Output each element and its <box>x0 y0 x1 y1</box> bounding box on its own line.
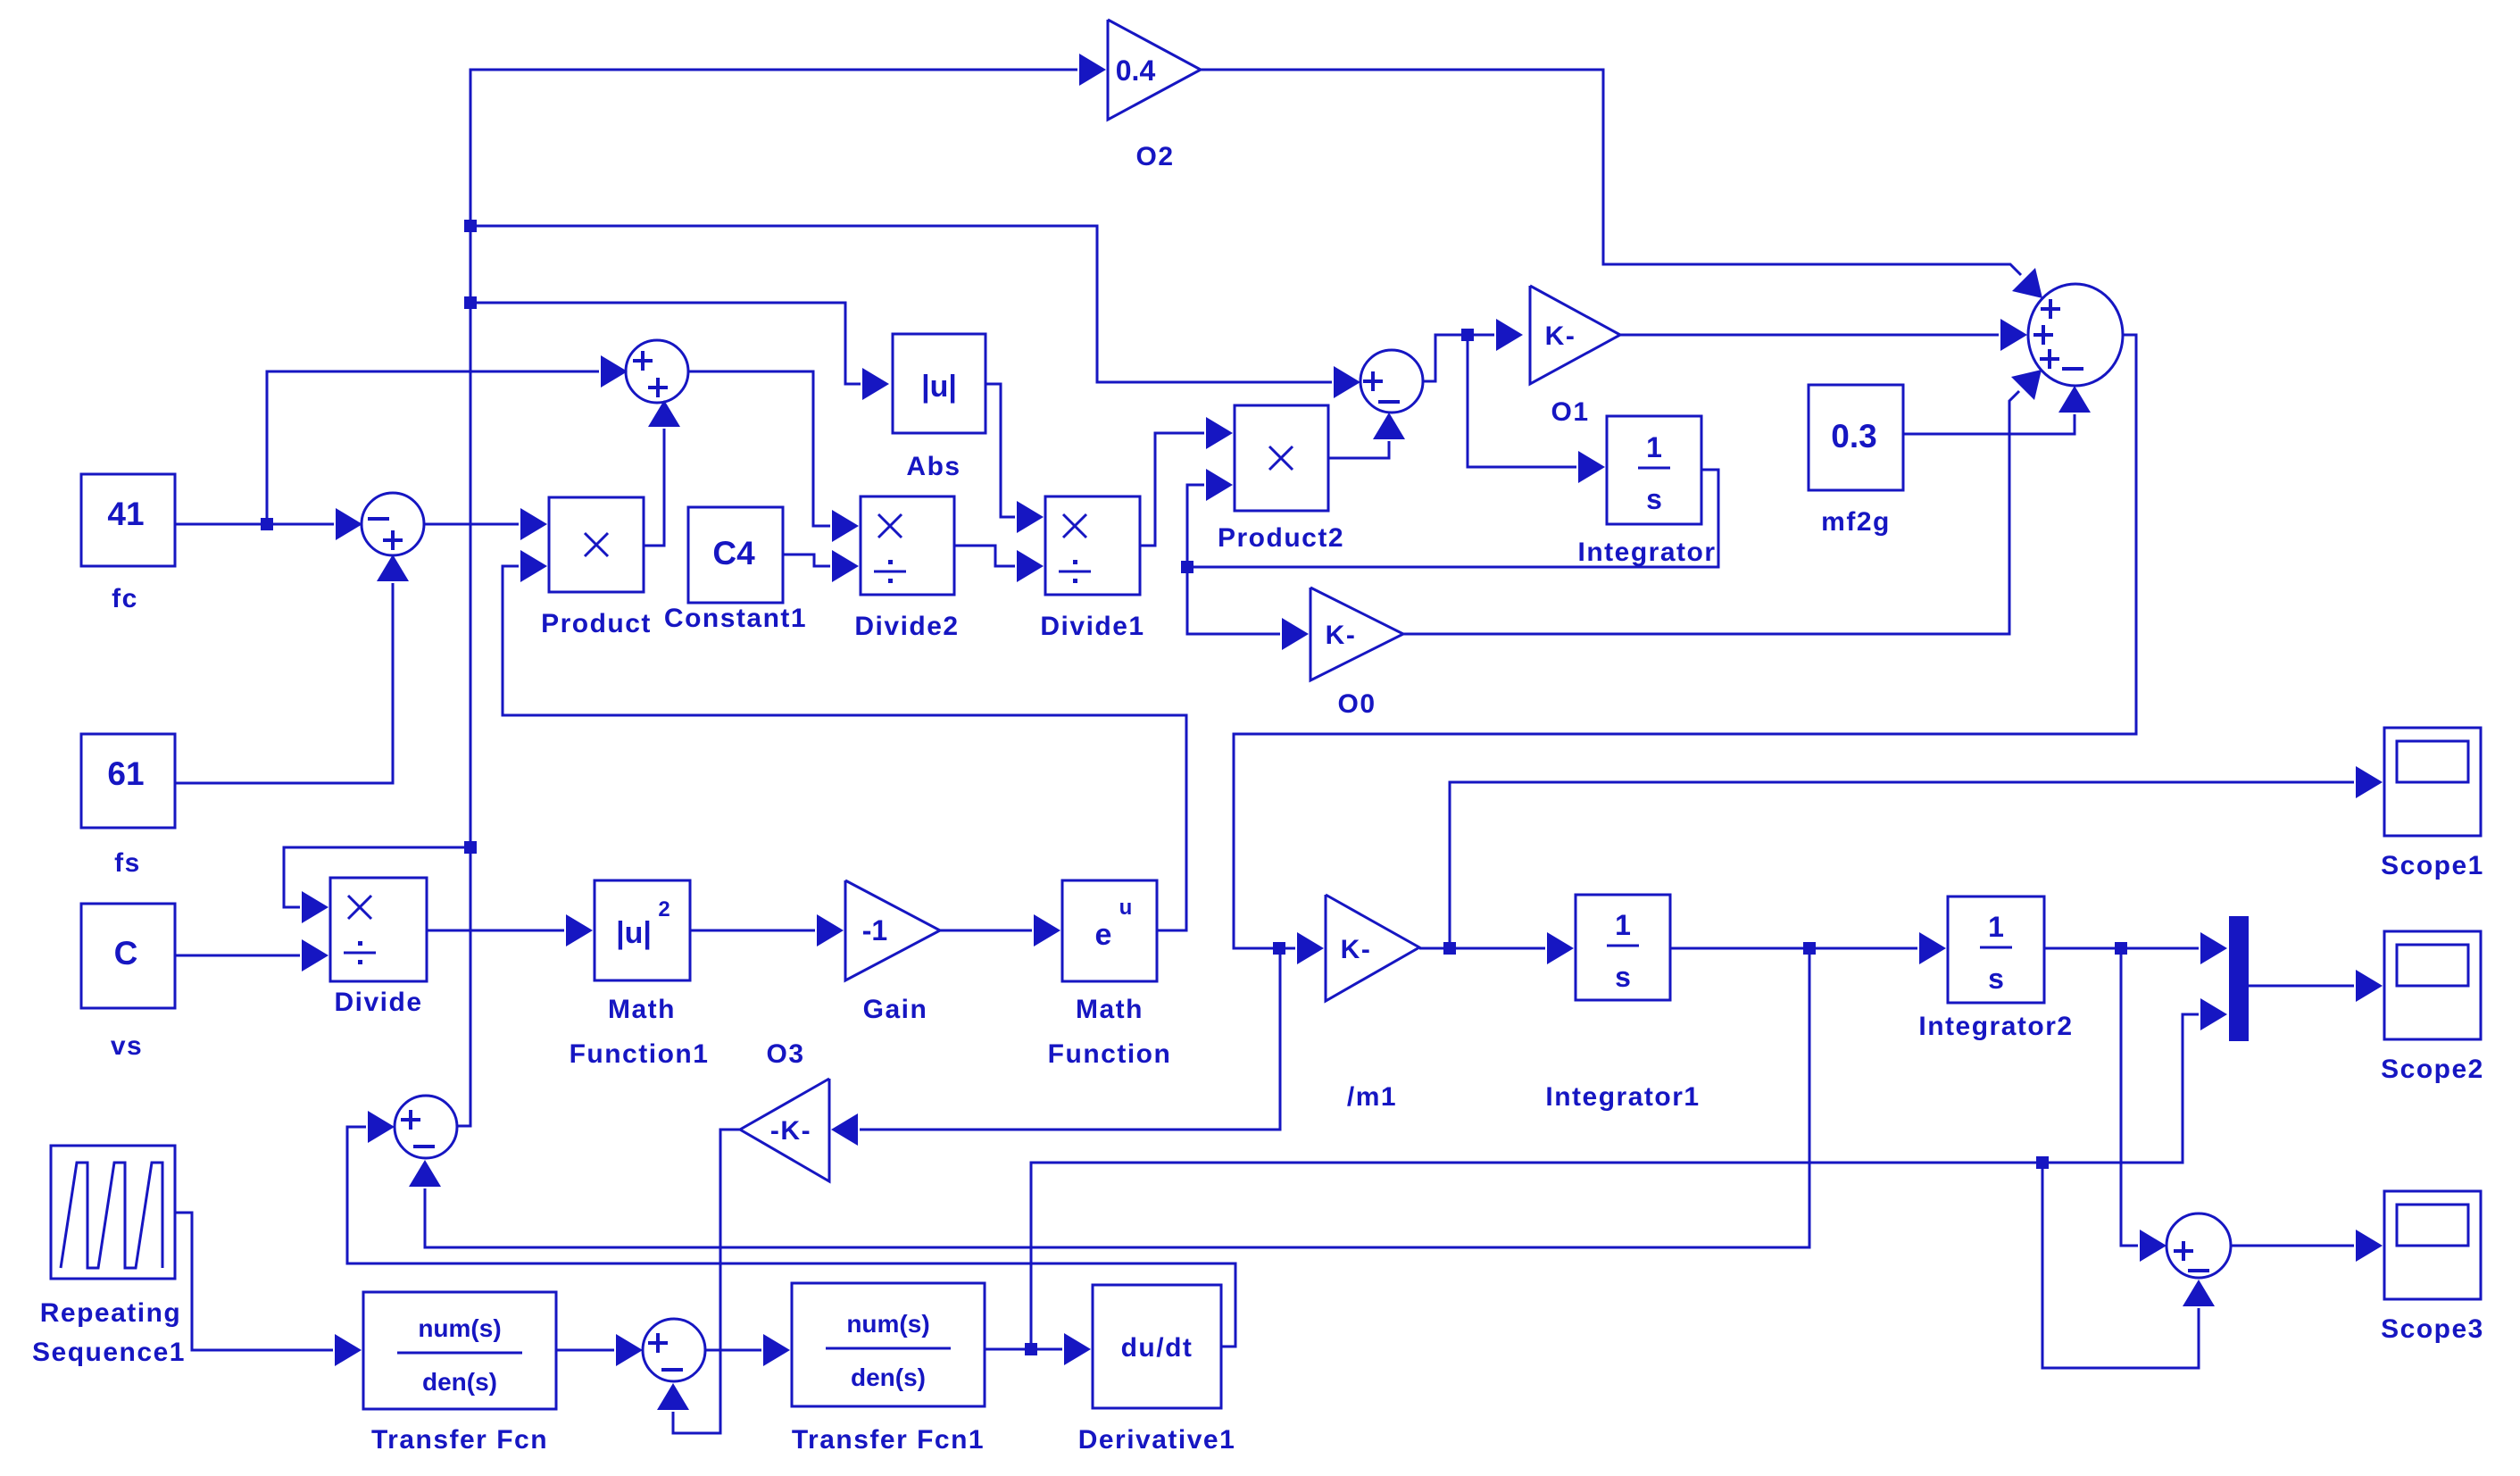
svg-text:Integrator: Integrator <box>1577 538 1716 567</box>
svg-text:vs: vs <box>111 1031 143 1061</box>
wire Sum4 up the left spine to O2 <box>458 70 1077 1126</box>
constant block vs (C) <box>81 904 175 1008</box>
wire O3 out to Sum5 bottom <box>673 1130 740 1433</box>
svg-text:2: 2 <box>658 897 670 921</box>
wire Product out to Sum2 bottom <box>644 429 664 546</box>
svg-text:fc: fc <box>112 584 138 613</box>
svg-text:Product: Product <box>541 609 652 638</box>
wire vs to Divide in2 <box>175 955 300 957</box>
svg-text:/m1: /m1 <box>1347 1082 1397 1112</box>
junction Sum3 out branch <box>1461 329 1474 341</box>
svg-text:num(s): num(s) <box>418 1314 501 1342</box>
svg-text:Derivative1: Derivative1 <box>1078 1425 1236 1455</box>
wire fc to Sum1 <box>175 523 334 526</box>
mux block Mux <box>2229 916 2249 1041</box>
wire Mux out to Scope2 <box>2249 985 2354 988</box>
wire Gain to Math Function <box>940 930 1032 932</box>
svg-text:|u|: |u| <box>921 370 957 404</box>
svg-text:|u|: |u| <box>616 916 652 950</box>
constant block mf2g (0.3) <box>1809 385 1903 490</box>
wire spine to Sum3 left <box>470 226 1332 382</box>
svg-text:fs: fs <box>114 848 141 878</box>
abs block Abs (|u|) <box>893 334 986 433</box>
svg-text:41: 41 <box>107 496 144 532</box>
gain block O2 (0.4) <box>1108 20 1201 120</box>
svg-text:du/dt: du/dt <box>1121 1333 1193 1363</box>
svg-text:Math: Math <box>608 995 676 1024</box>
scope block Scope1 <box>2384 728 2481 836</box>
junction Transfer Fcn1 out branch <box>1025 1343 1037 1355</box>
wire /m1 out to Integrator1 <box>1419 947 1545 950</box>
svg-text:Transfer Fcn1: Transfer Fcn1 <box>792 1425 985 1455</box>
math block Math Function (e^u) <box>1062 880 1157 981</box>
svg-text:Integrator1: Integrator1 <box>1545 1082 1700 1112</box>
svg-text:Scope1: Scope1 <box>2381 851 2484 880</box>
wire Transfer Fcn to Sum5 <box>556 1349 614 1352</box>
svg-text:Scope3: Scope3 <box>2381 1314 2484 1344</box>
integrator block Integrator (1/s) <box>1607 416 1701 524</box>
wire Sum2 to Divide2 in1 <box>687 371 830 526</box>
svg-text:s: s <box>1615 961 1631 993</box>
svg-text:61: 61 <box>107 755 144 792</box>
sum block Sum5 (+-) <box>643 1319 705 1381</box>
product block Product2 <box>1235 405 1328 511</box>
wire Divide2 to Divide1 in2 <box>954 546 1015 566</box>
divide block Divide <box>330 878 427 981</box>
sum block Sum4 (+-) <box>395 1096 457 1158</box>
svg-text:O0: O0 <box>1337 689 1376 719</box>
svg-text:den(s): den(s) <box>851 1363 926 1391</box>
derivative block Derivative1 (du/dt) <box>1093 1285 1221 1408</box>
svg-text:den(s): den(s) <box>422 1368 497 1396</box>
svg-text:Divide: Divide <box>334 988 422 1017</box>
wire branch down to Sum4 bottom <box>425 948 1809 1247</box>
wire Math Function1 to Gain <box>690 930 815 932</box>
gain block Gain (-1) <box>845 880 940 980</box>
junction Sum6 branch <box>2115 942 2127 955</box>
source block Repeating Sequence1 <box>51 1146 175 1279</box>
svg-text:s: s <box>1988 963 2004 995</box>
svg-text:O2: O2 <box>1135 142 1174 171</box>
sum block Sum1 (-+) <box>362 493 424 555</box>
wire O1 out to big sum left <box>1620 334 1999 337</box>
svg-text:mf2g: mf2g <box>1821 507 1891 537</box>
wire mf2g to big sum bottom <box>1903 414 2075 434</box>
svg-text:Function1: Function1 <box>570 1039 710 1069</box>
wire Divide to Math Function1 <box>427 930 564 932</box>
wire Integrator2 to Mux in1 <box>2044 947 2199 950</box>
scope block Scope3 <box>2384 1191 2481 1299</box>
constant block Constant1 (C4) <box>688 507 783 603</box>
wire fs to Sum1 bottom <box>175 583 393 783</box>
wire Product2 out to Sum3 bottom <box>1328 441 1389 458</box>
wire spine to Divide in1 <box>284 847 470 907</box>
sum block Sum6 (+-) <box>2167 1213 2231 1278</box>
wire junction down to O0 <box>1187 567 1280 634</box>
gain block O0 (K-) <box>1310 588 1403 680</box>
svg-text:Divide2: Divide2 <box>854 612 959 641</box>
svg-text:0.3: 0.3 <box>1831 418 1876 454</box>
wire O2 out to big sum <box>1201 70 2021 275</box>
svg-text:-K-: -K- <box>770 1116 811 1146</box>
sum block Sum2 (++) <box>626 340 688 403</box>
wire big sum out to /m1 <box>1234 335 2136 948</box>
svg-text:K-: K- <box>1341 935 1372 964</box>
divide block Divide2 <box>861 496 954 595</box>
junction Scope1 branch <box>1443 942 1456 955</box>
svg-text:K-: K- <box>1545 321 1576 351</box>
junction Integrator feedback <box>1181 561 1193 573</box>
gain block O1 (K-) <box>1530 286 1620 384</box>
sum block Sum3 (+-) <box>1360 350 1423 413</box>
junction to O3 <box>1273 942 1285 955</box>
integrator block Integrator2 (1/s) <box>1948 896 2044 1003</box>
svg-text:Divide1: Divide1 <box>1040 612 1144 641</box>
divide block Divide1 <box>1045 496 1140 595</box>
wire branch down to Sum6 left <box>2121 948 2138 1246</box>
integrator block Integrator1 (1/s) <box>1576 895 1670 1000</box>
wire Sum6 out to Scope3 <box>2231 1245 2354 1247</box>
svg-text:0.4: 0.4 <box>1116 54 1156 87</box>
svg-text:1: 1 <box>1988 911 2004 943</box>
transfer function block Transfer Fcn <box>363 1292 556 1409</box>
gain block O3 (-K-) pointing left <box>740 1079 829 1181</box>
svg-text:Math: Math <box>1076 995 1144 1024</box>
wire spine to Abs <box>470 303 861 384</box>
wire Integrator1 to Integrator2 <box>1670 947 1917 950</box>
svg-text:C: C <box>114 935 138 971</box>
math block Math Function1 (|u|^2) <box>595 880 690 980</box>
wire O0 out to big sum lower-left <box>1403 391 2019 634</box>
junction fc branch <box>261 518 273 530</box>
wire Derivative1 out feedback to Sum4 <box>347 1127 1235 1347</box>
wire Sum1 to Product in1 <box>423 523 519 526</box>
svg-text:s: s <box>1646 483 1662 515</box>
wire branch to Integrator <box>1468 335 1576 467</box>
svg-text:u: u <box>1119 896 1133 920</box>
svg-text:Product2: Product2 <box>1218 523 1344 553</box>
scope block Scope2 <box>2384 931 2481 1039</box>
gain block /m1 (K-) <box>1326 895 1419 1001</box>
sum block Sum big (+++-) <box>2028 284 2123 386</box>
transfer function block Transfer Fcn1 <box>792 1283 985 1406</box>
svg-text:e: e <box>1095 918 1112 952</box>
svg-text:1: 1 <box>1615 909 1631 941</box>
svg-text:-1: -1 <box>862 914 887 946</box>
svg-text:Constant1: Constant1 <box>664 604 807 633</box>
svg-text:Gain: Gain <box>863 995 928 1024</box>
svg-text:Abs: Abs <box>906 452 961 481</box>
svg-text:1: 1 <box>1646 431 1662 463</box>
wire Math Function out to Product in2 <box>503 566 1186 930</box>
junction Sum4 feedback branch <box>1803 942 1816 955</box>
junction spine y339 <box>464 296 477 309</box>
wire branch down to Sum6 bottom <box>2042 1163 2199 1368</box>
wire Sum5 to Transfer Fcn1 <box>705 1349 761 1352</box>
junction spine y253 <box>464 220 477 232</box>
wire Repeating Sequence1 to Transfer Fcn <box>175 1213 333 1350</box>
svg-text:Integrator2: Integrator2 <box>1918 1012 2073 1041</box>
wire branch down to O3 <box>860 948 1280 1130</box>
product block Product <box>549 497 644 592</box>
constant block fc (41) <box>81 474 175 566</box>
svg-text:C4: C4 <box>712 535 755 571</box>
wire Divide1 to Product2 in1 <box>1140 433 1204 546</box>
wire Constant1 to Divide2 in2 <box>783 555 830 566</box>
wire Sum3 out to O1 and Integrator <box>1423 335 1494 381</box>
svg-text:Sequence1: Sequence1 <box>32 1338 186 1367</box>
wire Integrator out to Product2 in2 and O0 <box>1187 470 1718 567</box>
junction Sum6 bottom branch <box>2036 1156 2049 1169</box>
wire Transfer Fcn1 to Derivative1 <box>985 1348 1062 1351</box>
svg-text:Function: Function <box>1048 1039 1172 1069</box>
svg-text:num(s): num(s) <box>846 1310 929 1338</box>
wire fc branch to Sum2 <box>267 371 599 524</box>
junction spine y949 <box>464 841 477 854</box>
wire branch up and right to Mux in2 <box>1031 1014 2199 1349</box>
svg-text:O3: O3 <box>766 1039 804 1069</box>
wire Abs to Divide1 in1 <box>986 384 1015 517</box>
svg-text:O1: O1 <box>1551 397 1589 427</box>
wire branch to Scope1 <box>1450 782 2354 948</box>
svg-text:Repeating: Repeating <box>40 1298 182 1328</box>
svg-text:K-: K- <box>1326 621 1357 650</box>
svg-text:Scope2: Scope2 <box>2381 1055 2484 1084</box>
svg-text:Transfer Fcn: Transfer Fcn <box>371 1425 548 1455</box>
constant block fs (61) <box>81 734 175 828</box>
